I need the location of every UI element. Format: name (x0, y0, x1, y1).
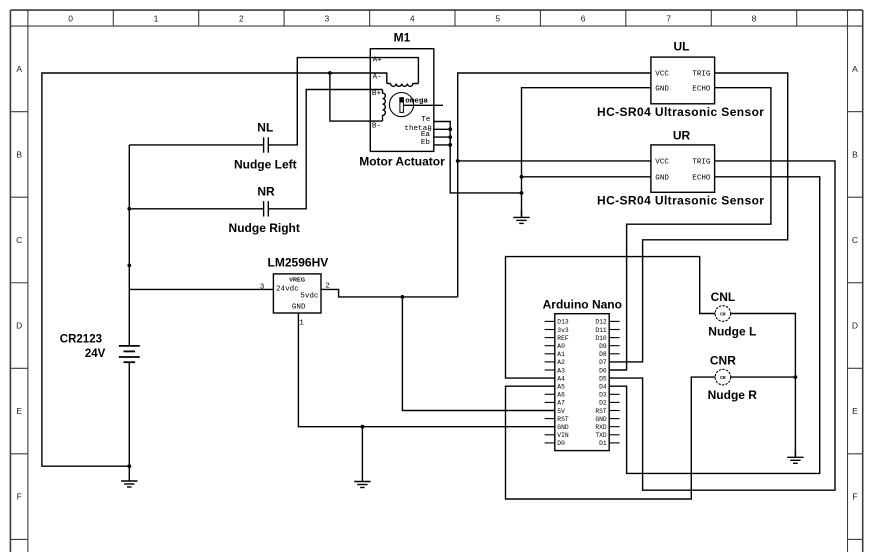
wire: LM2596HV output pin 2 to 5V rail (321, 289, 458, 297)
svg-text:ECHO: ECHO (692, 175, 711, 183)
wire: LM2596HV GND pin 1 to Arduino GND (298, 313, 554, 427)
ground (sensor rail) (521, 210, 523, 217)
svg-text:D7: D7 (599, 359, 607, 366)
svg-text:D5: D5 (599, 375, 607, 382)
svg-text:C: C (16, 235, 22, 245)
svg-text:Nudge R: Nudge R (708, 388, 758, 402)
svg-text:VREG: VREG (289, 277, 305, 283)
svg-text:1: 1 (299, 320, 304, 328)
wire: UR VCC branch (458, 160, 651, 162)
svg-text:VCC: VCC (655, 159, 669, 167)
junction: mid tap (127, 264, 131, 268)
svg-text:M1: M1 (394, 31, 411, 45)
svg-text:24V: 24V (85, 348, 106, 360)
svg-text:3: 3 (325, 13, 330, 23)
wire: battery negative to ground junction (128, 362, 130, 466)
svg-text:D11: D11 (595, 327, 607, 334)
svg-text:6: 6 (581, 13, 586, 23)
svg-text:VCC: VCC (655, 71, 669, 79)
svg-text:D10: D10 (595, 335, 607, 342)
svg-text:RST: RST (557, 416, 569, 423)
svg-text:TRIG: TRIG (692, 159, 711, 167)
wire: M1 Te to ground rail (434, 122, 522, 193)
svg-text:E: E (16, 406, 22, 416)
svg-text:D4: D4 (599, 384, 607, 391)
svg-text:omega: omega (405, 98, 428, 106)
wire: M1 Ea pin (434, 136, 450, 138)
svg-text:A-: A- (373, 74, 382, 82)
svg-text:E: E (852, 406, 858, 416)
wire: UR GND branch (522, 176, 651, 178)
ultrasonic sensor UR (HC-SR04) (651, 145, 715, 192)
wire: CNR right (731, 376, 796, 378)
wire: UL ECHO to Arduino D6 (609, 88, 771, 370)
contact CNL (Nudge L) (715, 306, 731, 322)
svg-text:GND: GND (557, 424, 569, 431)
junction: VCC rail (456, 159, 460, 163)
wire: A- to B- link (330, 73, 383, 121)
junction: Te-gnd (520, 191, 524, 195)
junction: Ea (448, 135, 452, 139)
wire: battery positive rail (vertical x=129.3) (128, 145, 130, 346)
svg-text:A: A (16, 64, 22, 74)
svg-text:CR: CR (720, 375, 726, 381)
junction: Eb (448, 143, 452, 147)
svg-text:GND: GND (655, 85, 669, 93)
svg-text:D2: D2 (599, 400, 607, 407)
wire: UR ECHO to Arduino D4 (609, 177, 820, 474)
svg-text:D1: D1 (599, 440, 607, 447)
svg-text:F: F (852, 492, 857, 502)
svg-text:5V: 5V (557, 408, 565, 415)
svg-text:A3: A3 (557, 367, 565, 374)
svg-text:RST: RST (595, 408, 607, 415)
svg-text:B: B (16, 150, 22, 160)
svg-text:F: F (17, 492, 22, 502)
svg-text:GND: GND (595, 416, 607, 423)
switch NR (Nudge Right) (263, 201, 265, 216)
junction: A- node (328, 71, 332, 75)
svg-text:VIN: VIN (557, 432, 569, 439)
svg-text:ECHO: ECHO (692, 85, 711, 93)
svg-text:CNR: CNR (710, 354, 736, 368)
junction: theta (448, 127, 452, 131)
wire: CNL right to ground (731, 314, 796, 458)
svg-text:Ea: Ea (421, 131, 431, 139)
svg-text:D: D (852, 321, 858, 331)
svg-text:B+: B+ (372, 90, 382, 98)
wire: A-/B- loop from M1 around left side (42, 73, 370, 466)
svg-text:CR2123: CR2123 (60, 334, 102, 346)
svg-text:5: 5 (495, 13, 500, 23)
svg-text:24vdc: 24vdc (276, 285, 299, 293)
svg-text:HC-SR04 Ultrasonic Sensor: HC-SR04 Ultrasonic Sensor (597, 193, 764, 207)
wire: omega stub (404, 104, 443, 106)
svg-text:A4: A4 (557, 375, 565, 382)
svg-text:UL: UL (674, 39, 690, 53)
junction: 5V branch (401, 295, 405, 299)
wire: M1 theta pin (434, 128, 450, 130)
svg-text:RXD: RXD (595, 424, 607, 431)
svg-text:D12: D12 (595, 319, 607, 326)
svg-text:D13: D13 (557, 319, 569, 326)
switch NL (Nudge Left) (263, 137, 265, 152)
wire: to NR left (129, 208, 263, 210)
svg-text:Nudge L: Nudge L (708, 325, 756, 339)
svg-text:Te: Te (421, 116, 431, 124)
wire: M1 Eb pin (434, 144, 450, 146)
arduino nano (555, 314, 609, 451)
junction: CNR node (794, 375, 798, 379)
svg-text:CNL: CNL (711, 290, 736, 304)
svg-text:Nudge Left: Nudge Left (234, 158, 297, 172)
wire: 5V rail vertical + UL VCC (458, 73, 651, 297)
svg-text:A+: A+ (373, 56, 383, 64)
battery CR2123 24V (119, 345, 140, 347)
ultrasonic sensor UL (HC-SR04) (651, 57, 715, 104)
wire: UR TRIG to Arduino D5 (609, 161, 835, 490)
svg-text:1: 1 (154, 13, 159, 23)
regulator LM2596HV (273, 274, 321, 313)
svg-text:7: 7 (666, 13, 671, 23)
svg-text:TRIG: TRIG (692, 71, 711, 79)
svg-text:UR: UR (673, 128, 691, 142)
svg-text:3v3: 3v3 (557, 327, 569, 334)
wire: UL GND down to ground (522, 88, 651, 218)
ground (battery) (128, 466, 130, 481)
svg-text:4: 4 (410, 13, 415, 23)
svg-text:D9: D9 (599, 343, 607, 350)
svg-text:NL: NL (257, 121, 273, 135)
wire: to LM2596HV input pin 3 (129, 288, 273, 290)
motor actuator M1 (370, 49, 434, 152)
svg-text:HC-SR04 Ultrasonic Sensor: HC-SR04 Ultrasonic Sensor (597, 105, 764, 119)
svg-text:Motor Actuator: Motor Actuator (359, 154, 445, 168)
junction: battery negative node (127, 464, 131, 468)
svg-text:A1: A1 (557, 351, 565, 358)
svg-text:REF: REF (557, 335, 569, 342)
wire: Arduino A5 to CNR (506, 377, 716, 499)
svg-text:A7: A7 (557, 400, 565, 407)
svg-text:D3: D3 (599, 392, 607, 399)
svg-text:TXD: TXD (595, 432, 607, 439)
svg-text:5vdc: 5vdc (300, 293, 318, 301)
ground (nudge contacts) (794, 450, 796, 457)
junction: UR GND (520, 175, 524, 179)
svg-text:NR: NR (257, 184, 275, 198)
wire: NR right to M1 B+ (268, 90, 382, 209)
svg-text:A: A (852, 64, 858, 74)
svg-text:B-: B- (372, 122, 381, 130)
svg-text:C: C (852, 235, 858, 245)
ground (regulator) (361, 427, 363, 482)
wire: 5V to Arduino 5V pin (402, 297, 554, 411)
svg-text:A5: A5 (557, 384, 565, 391)
svg-text:Eb: Eb (421, 139, 431, 147)
wire: NL right to M1 A+ (268, 58, 370, 145)
wire: Arduino A4 to CNL (506, 257, 716, 379)
svg-text:3: 3 (260, 284, 265, 292)
contact CNR (Nudge R) (715, 369, 731, 385)
svg-text:A0: A0 (557, 343, 565, 350)
svg-text:D6: D6 (599, 367, 607, 374)
svg-text:D: D (16, 321, 22, 331)
svg-text:0: 0 (68, 13, 73, 23)
wire: to NL left (129, 144, 263, 146)
svg-text:D8: D8 (599, 351, 607, 358)
svg-text:B: B (852, 150, 858, 160)
svg-text:Nudge Right: Nudge Right (229, 221, 300, 235)
svg-text:GND: GND (292, 304, 306, 312)
junction: NR tap (127, 207, 131, 211)
svg-text:A2: A2 (557, 359, 565, 366)
svg-text:8: 8 (752, 13, 757, 23)
svg-text:2: 2 (325, 282, 330, 290)
svg-text:LM2596HV: LM2596HV (268, 256, 329, 270)
svg-text:A6: A6 (557, 392, 565, 399)
junction: gnd branch (361, 425, 365, 429)
svg-text:2: 2 (239, 13, 244, 23)
svg-text:CR: CR (720, 312, 726, 318)
svg-text:Arduino Nano: Arduino Nano (543, 297, 622, 311)
svg-text:GND: GND (655, 175, 669, 183)
wire: UL TRIG to Arduino D7 (609, 73, 788, 362)
svg-text:D0: D0 (557, 440, 565, 447)
